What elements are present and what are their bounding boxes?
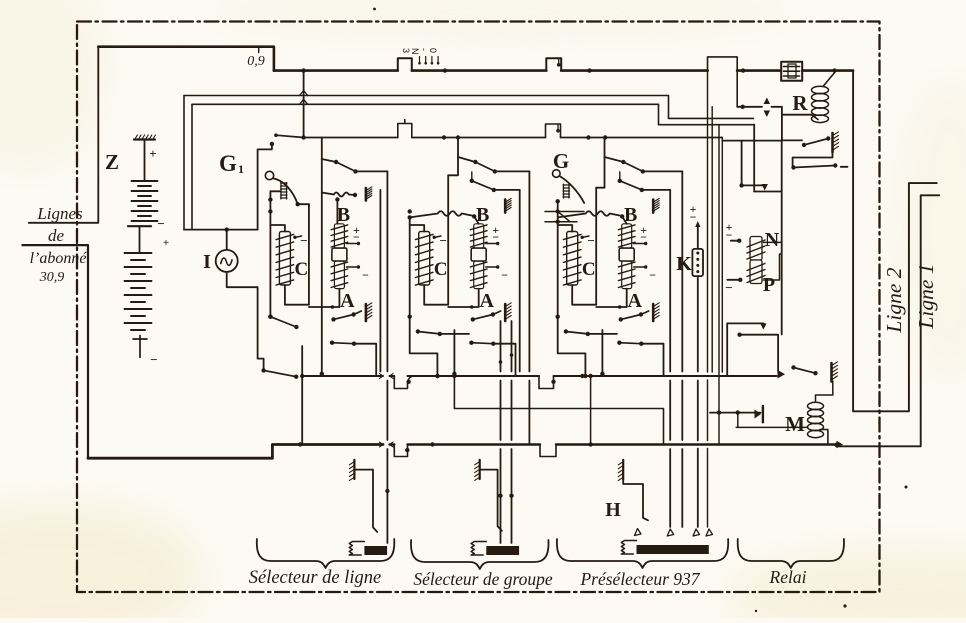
wire mid drop (b2) [453, 330, 455, 374]
wire squiggle to relay B [322, 193, 355, 197]
wire R top to bus1 [823, 73, 835, 87]
wire generator I output [227, 272, 264, 371]
armature curve (b3) [560, 176, 585, 203]
svg-text:−: − [726, 228, 733, 242]
wire rail r6 (x719) [718, 125, 720, 445]
switch SW-R2 [791, 165, 795, 169]
wire K down to roller [697, 276, 699, 527]
wire subscriber line B [22, 245, 88, 458]
lower switch row 2 (b3) [617, 341, 621, 345]
svg-text:P: P [763, 274, 775, 296]
brace Preselecteur [557, 539, 728, 568]
node dot rail b1 [385, 489, 389, 493]
node G1 bottom junction [225, 227, 229, 231]
wire top feed to 0,9 [98, 47, 274, 71]
svg-text:A: A [340, 290, 355, 312]
wire C top to left rail [270, 225, 285, 232]
wire left jog to busA (b1) [268, 315, 272, 319]
brush arrows roller3 [635, 529, 642, 536]
svg-text:A: A [627, 290, 642, 312]
battery Z middle tap [128, 225, 151, 227]
svg-text:H: H [605, 499, 621, 521]
svg-text:M: M [785, 412, 805, 436]
tick arrows under bump [420, 57, 439, 63]
contact hatched top (b2) [504, 200, 507, 213]
svg-text:0: 0 [428, 48, 438, 53]
wire G1 loop left (bus2 corner down) [183, 96, 185, 230]
svg-text:−: − [439, 233, 446, 248]
roller commutator b1 [349, 542, 364, 556]
bottom switch with contact (b1) [331, 317, 335, 321]
lower switch row 1 (b3) [564, 329, 568, 333]
wire rail r7 (bus4 down, x722.3) [721, 138, 723, 373]
wire bus1 (thick top bus) [274, 69, 708, 72]
wire ground b3 [623, 479, 648, 520]
polarized contact top right [764, 98, 770, 118]
wire bus3 [192, 104, 754, 124]
wire b3 right rail B [669, 190, 671, 527]
lower switch row 2 (b2) [469, 341, 473, 345]
wire N left [731, 240, 740, 242]
svg-text:0,9: 0,9 [247, 54, 265, 69]
svg-text:−: − [300, 233, 307, 248]
wire K up with arrow [697, 224, 699, 249]
armature core hatched (b3) [563, 184, 570, 198]
wire left jog to busA (b3) [558, 317, 586, 376]
wire b3 busA to busB link [590, 376, 592, 445]
wire armature L (b1) [270, 191, 280, 199]
svg-text:3: 3 [401, 48, 411, 53]
paper specks [373, 8, 376, 11]
svg-text:−: − [501, 268, 508, 282]
wire to M coil left [736, 413, 807, 428]
wire vertical from bus1 to bus4 [303, 71, 305, 138]
wire b3 right rail A [681, 171, 683, 527]
switch arm top b (b2) [470, 179, 474, 183]
switch arm at G1 top [276, 135, 304, 137]
coil C (b2) [419, 232, 430, 286]
wire busB (lower bottom bus, thick) [88, 445, 383, 459]
svg-text:B: B [337, 204, 350, 226]
ground hatch b1 [353, 460, 355, 479]
svg-text:N: N [410, 48, 420, 55]
wire busA (upper bottom bus) [302, 375, 776, 377]
bump on bus4 (second) [546, 124, 561, 138]
svg-text:30,9: 30,9 [39, 270, 65, 285]
wire feed from bus4 (b1) [321, 138, 323, 374]
armature core hatched (b1) [281, 183, 288, 200]
svg-text:de: de [48, 226, 65, 245]
brace Relai [738, 539, 844, 568]
wire C bottom [285, 285, 309, 305]
wire loop to SW-M [727, 323, 763, 376]
bottom switch with contact (b3) [619, 317, 623, 321]
lower switch row 1 (b2) [416, 329, 420, 333]
rect loop N area [722, 141, 781, 192]
svg-text:A: A [479, 290, 494, 312]
svg-text:Ligne 2: Ligne 2 [882, 267, 906, 333]
battery Z upper cells [132, 181, 158, 221]
node junction bus1/vertical [301, 68, 305, 72]
roller commutator b3 [621, 541, 636, 555]
svg-text:−: − [725, 280, 732, 295]
wire subscriber line A [29, 47, 99, 223]
wire mid drop (b3) [601, 330, 603, 374]
relay B (b1) [334, 224, 344, 248]
svg-text:Sélecteur de ligne: Sélecteur de ligne [249, 568, 382, 588]
wire G1 box bottom [184, 229, 258, 231]
switch arm top a (b2) [473, 160, 477, 164]
svg-text:−: − [150, 352, 157, 367]
contact hatched SW-M [830, 363, 833, 382]
svg-text:N: N [765, 229, 780, 251]
wire G1 right side + step to contact [258, 145, 272, 230]
bottom switch with contact (b2) [471, 317, 475, 321]
battery Z lower cells [125, 253, 152, 330]
coil C (b1) [279, 232, 290, 286]
svg-text:C: C [582, 259, 596, 280]
roller commutator b2 [471, 542, 486, 556]
vertical x754 [753, 125, 755, 192]
wire b3 middle rail [595, 188, 597, 305]
svg-text:1: 1 [238, 162, 244, 176]
wire squiggle to relay B [410, 211, 475, 217]
wire b2 middle rail [447, 175, 449, 304]
battery Z bottom terminal [133, 336, 147, 358]
wire bus1 jog over rails to fuse [708, 57, 738, 107]
lower switch row 2 (b1) [330, 341, 334, 345]
wire N right to rail [764, 242, 782, 280]
svg-text:−: − [649, 268, 656, 282]
wire busA-busB link [301, 346, 303, 445]
svg-text:−: − [157, 216, 164, 231]
contact hatched top (b1) [365, 188, 368, 201]
switch SW-M [778, 370, 786, 379]
busB jog 2 [540, 445, 556, 457]
wire switch b to right rail [494, 189, 520, 191]
svg-text:C: C [434, 259, 448, 280]
switch arm top b (b3) [618, 179, 622, 183]
busB jog 1 [394, 445, 407, 457]
wire bus2 [184, 96, 754, 119]
svg-text:l’abonné: l’abonné [30, 250, 88, 267]
wire b2 left rail [409, 217, 411, 316]
wire C bottom [572, 285, 596, 305]
wire b2 right rail B [519, 190, 521, 372]
wire switch b to right rail [642, 189, 670, 191]
svg-text:G: G [219, 151, 237, 176]
wire C bottom [424, 285, 448, 305]
wire b1 right rail A [386, 171, 388, 543]
wire b1 right rail B [379, 190, 381, 372]
svg-text:Ligne 1: Ligne 1 [914, 263, 938, 329]
wire stub with dot [742, 141, 762, 186]
wire b3 left rail [557, 201, 559, 316]
svg-text:Z: Z [105, 150, 119, 174]
ground hatch b3 [622, 460, 624, 479]
break chevrons at rail crossings [379, 374, 393, 379]
switch SW-R1 [802, 143, 806, 147]
relay B (b2) [474, 224, 484, 248]
wire M right to busB [820, 430, 828, 445]
wire switch a to right rail [495, 170, 530, 172]
wire to switch SW-R2 [793, 152, 833, 166]
brace Selecteur de groupe [411, 540, 549, 569]
coil C (b3) [567, 232, 578, 286]
bump on bus4 (first) [398, 120, 412, 138]
wire left jog to busA (b2) [410, 317, 438, 376]
polarized contact near M [710, 412, 761, 414]
wire C top to left rail [558, 225, 573, 232]
armature pivot circle (b3) [553, 170, 561, 178]
armature curve (b1) [274, 179, 298, 205]
svg-text:I: I [203, 251, 211, 273]
wire bus1 from fuse to Ligne2 corner [802, 69, 853, 72]
wire rail r4 (x707.5) [707, 71, 709, 527]
wire switch a to right rail [356, 170, 388, 172]
wire M top to contact [816, 381, 833, 402]
brace Selecteur de ligne [257, 539, 395, 568]
relay B (b3) [622, 224, 632, 248]
wire squiggle to relay B [558, 211, 623, 217]
wire rails into roller b2 [501, 321, 512, 543]
svg-text:−: − [362, 268, 369, 282]
svg-text:Sélecteur de groupe: Sélecteur de groupe [413, 569, 553, 589]
wire P left [727, 279, 740, 281]
wire feed from bus4 (b2) [448, 138, 458, 176]
svg-text:+: + [163, 237, 169, 249]
wire b1 left rail [269, 200, 271, 317]
svg-text:−: − [587, 233, 594, 248]
switch arm top a (b3) [621, 160, 625, 164]
svg-text:−: − [690, 210, 697, 224]
rail x781 down [781, 192, 783, 335]
busA jog 2 [539, 376, 554, 389]
fuse/connector F1 top right [781, 62, 802, 81]
wire B coil bottom [596, 289, 627, 307]
wire feed from bus4 (b3) [596, 138, 604, 188]
wire b2 right rail A [528, 171, 530, 444]
wire B coil bottom [448, 289, 479, 307]
wire switch a to right rail [643, 170, 683, 172]
wire C top to left rail [410, 225, 425, 232]
svg-text:-: - [419, 48, 429, 51]
armature pivot circle (b1) [265, 171, 273, 179]
svg-text:K: K [676, 253, 692, 275]
wire G1 loop inner (bus3 corner down) [191, 104, 193, 229]
wire contact to R branch [772, 107, 812, 115]
wire B coil bottom [309, 289, 340, 307]
wire rail r5 (x712.2) [711, 107, 713, 372]
wire R bottom [812, 115, 819, 120]
wire ground b2 to brush [480, 470, 502, 531]
switch arm top a (b1) [334, 160, 338, 164]
contact hatched SW-R1 [831, 133, 834, 152]
svg-text:Lignes: Lignes [36, 204, 83, 223]
svg-text:Présélecteur 937: Présélecteur 937 [579, 569, 700, 589]
bump on bus1 (second) [546, 58, 561, 70]
wire to polarized contact [737, 106, 762, 108]
svg-text:C: C [295, 259, 309, 280]
svg-text:Relai: Relai [769, 567, 807, 587]
contact pair G (b3) [545, 212, 584, 222]
wire armature to middle rail (b1) [298, 204, 309, 206]
contact hatched top (b3) [652, 200, 655, 213]
wire ground b1 to brush [354, 470, 377, 532]
wire long link busA(454) to busB(663) [454, 374, 663, 445]
svg-text:R: R [792, 91, 808, 115]
battery Z top terminal [134, 138, 155, 140]
wire b1 middle rail [308, 206, 310, 305]
ground hatch b2 [479, 460, 481, 479]
busA jog 1 [394, 376, 413, 389]
wire Ligne 2 [853, 71, 937, 412]
fuse bump 3N=0 on bus1 [398, 58, 412, 70]
wire bus4 [304, 137, 723, 139]
svg-text:+: + [149, 146, 156, 161]
wire busB to Ligne 1 [837, 195, 940, 446]
dash-dot border frame [77, 22, 880, 593]
wire to switch SW-R1 [782, 115, 802, 141]
